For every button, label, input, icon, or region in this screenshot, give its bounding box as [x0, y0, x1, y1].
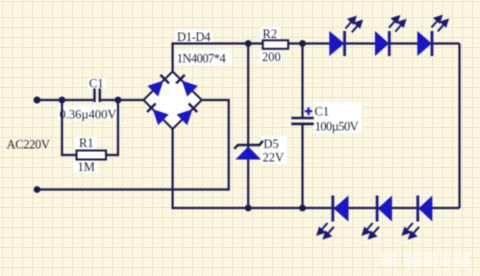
svg-text:1N4007*4: 1N4007*4 — [177, 52, 227, 66]
svg-text:R2: R2 — [263, 27, 278, 41]
svg-text:D5: D5 — [264, 137, 279, 151]
svg-text:100µ50V: 100µ50V — [315, 120, 359, 134]
svg-text:C1: C1 — [89, 77, 104, 91]
svg-text:200: 200 — [262, 50, 281, 64]
svg-text:1M: 1M — [78, 160, 95, 174]
svg-text:AC220V: AC220V — [7, 138, 51, 152]
svg-text:C1: C1 — [315, 105, 330, 119]
svg-text:0.36µ400V: 0.36µ400V — [60, 108, 117, 122]
svg-text:R1: R1 — [79, 136, 94, 150]
svg-text:22V: 22V — [263, 151, 285, 165]
svg-text:D1-D4: D1-D4 — [177, 30, 211, 44]
